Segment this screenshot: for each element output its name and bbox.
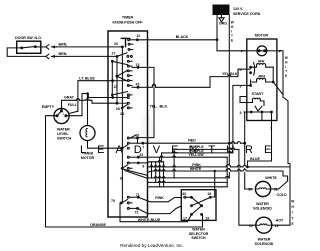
svg-text:13: 13 [136, 63, 140, 67]
service cord white leg [228, 15, 230, 142]
svg-text:BRN.: BRN. [59, 52, 68, 56]
timer contact row 70.8 [117, 70, 132, 76]
wire GRAY water level 1 to timer [62, 100, 77, 109]
motor middle leg to box bottom [261, 112, 263, 121]
svg-text:19: 19 [205, 217, 209, 221]
timer motor coil [86, 129, 87, 137]
svg-text:4PH: 4PH [258, 60, 265, 64]
door switch DOOR SW. N.O. box [17, 41, 41, 53]
wire YEL.-BLK. timer 43 to motor 5 [138, 86, 148, 88]
wire door switch left contact loop to lower disconnect [7, 48, 46, 57]
svg-text:MOTOR: MOTOR [255, 34, 269, 38]
timer contacts under T bar [128, 43, 133, 50]
wire ORANGE [46, 214, 203, 227]
selector bottom contacts 17 19 [190, 213, 203, 216]
wire BRN upper to timer contact 26 [57, 46, 123, 48]
timer contact 8 fan [121, 165, 148, 178]
svg-text:22: 22 [249, 224, 253, 228]
motor protector circle [257, 46, 267, 56]
hot solenoid right lead [272, 224, 290, 226]
svg-text:120 V.: 120 V. [233, 7, 243, 11]
motor centrifugal contacts terminal 5 [247, 63, 255, 76]
svg-text:DOOR SW. N.O.: DOOR SW. N.O. [15, 36, 42, 40]
svg-text:7: 7 [142, 145, 144, 149]
svg-text:YEL. -BLK.: YEL. -BLK. [150, 104, 169, 108]
svg-text:ORANGE: ORANGE [90, 223, 106, 227]
svg-text:27: 27 [112, 52, 116, 56]
svg-text:GRD.: GRD. [219, 22, 228, 26]
svg-text:71: 71 [136, 193, 140, 197]
timer node 15 big junction [116, 75, 119, 78]
wire motor4 leg RED to cold solenoid [244, 112, 246, 165]
cold solenoid right lead WHITE hook [271, 188, 279, 190]
timer push-off T bar [121, 38, 129, 46]
svg-text:9: 9 [142, 164, 144, 168]
timer contact 12 [128, 38, 139, 41]
cold water solenoid [255, 181, 270, 196]
wire BLACK timer 12 to service cord [137, 39, 217, 41]
selector middle contacts [190, 197, 210, 207]
timer inner column 27 down [116, 56, 118, 103]
svg-text:W: W [231, 21, 234, 25]
svg-text:26: 26 [114, 42, 118, 46]
svg-text:8: 8 [120, 176, 122, 180]
svg-text:70: 70 [111, 199, 115, 203]
svg-text:COLD: COLD [277, 193, 288, 197]
svg-text:T: T [231, 34, 233, 38]
svg-text:43: 43 [182, 192, 186, 196]
svg-text:KNOB-PUSH OFF: KNOB-PUSH OFF [113, 20, 144, 24]
node BLACK service junction [216, 38, 219, 41]
svg-text:E: E [231, 39, 233, 43]
label WHITE vertical solenoids [291, 200, 294, 226]
water level switch contacts 1 2 3 [56, 109, 68, 117]
wire WHITE-BLUE timer 70 to selector 17 [120, 203, 192, 222]
descender four [163, 162, 165, 187]
timer node 97.5 gray wire entry [111, 96, 129, 99]
disconnect arrows upper BRN. [46, 45, 57, 50]
motor diagonal to white lead [273, 82, 283, 95]
svg-text:SWITCH: SWITCH [57, 136, 72, 140]
motor centrifugal blade [250, 106, 273, 113]
svg-text:MOTOR: MOTOR [81, 156, 95, 160]
cold solenoid coil [256, 188, 270, 189]
timer contact row 94.9 [111, 92, 132, 97]
svg-text:12: 12 [136, 34, 140, 38]
svg-text:I: I [285, 65, 286, 69]
wire BLUE leg [247, 161, 249, 167]
timer contact row 85.5 [127, 85, 132, 87]
svg-text:17: 17 [183, 217, 187, 221]
watermark LeadVenture text [80, 144, 282, 156]
riser purple2 left end [161, 153, 163, 162]
descender one [151, 162, 153, 178]
descender two [155, 162, 157, 183]
service cord hot leg [217, 15, 247, 51]
timer contact row 66 [127, 65, 132, 67]
svg-text:SERVICE CORD: SERVICE CORD [233, 12, 261, 16]
svg-text:YEL-BLK: YEL-BLK [222, 72, 238, 76]
wire timer motor top leg [87, 94, 89, 126]
svg-text:4PH: 4PH [258, 75, 265, 79]
wire YELLOW leg down [226, 157, 228, 187]
svg-text:WATER: WATER [258, 238, 271, 242]
timer contact row 75.6 [127, 75, 132, 77]
motor protector leads P-P [247, 50, 257, 52]
timer contact 22 [127, 156, 147, 159]
motor terminal 4 lead [244, 111, 251, 113]
service cord plug 120 V. [213, 5, 230, 16]
riser purple1 left end [173, 149, 175, 178]
svg-text:RED: RED [188, 139, 196, 143]
timer contact row 61 [112, 60, 132, 64]
svg-text:21: 21 [275, 224, 279, 228]
svg-text:WHITE: WHITE [265, 176, 277, 180]
selector blade bottom [192, 206, 202, 215]
timer node 26 junction [121, 46, 124, 49]
wire door switch right contact to upper disconnect [35, 46, 46, 48]
svg-text:WATER: WATER [57, 128, 70, 132]
wire LT. BLUE [78, 81, 113, 112]
wire WHITE motor P right side down [277, 51, 283, 95]
svg-text:W: W [285, 56, 288, 60]
motor start winding loop stub [240, 97, 247, 103]
wire timer 72 to selector middle [138, 206, 182, 214]
svg-text:28: 28 [116, 107, 120, 111]
wire WHITE long [148, 171, 155, 172]
svg-text:LEVEL: LEVEL [57, 132, 69, 136]
ground stub GRD. [219, 15, 224, 22]
selector box WATER SELECTOR SWITCH [181, 190, 216, 221]
wire return row 3 [148, 186, 228, 188]
svg-text:10: 10 [135, 133, 139, 137]
wire water level 3 to timer [66, 94, 113, 116]
motor right inner column [272, 67, 274, 82]
motor start winding [247, 98, 264, 105]
wire BRN lower to timer contact 27 [57, 55, 118, 57]
timer box [108, 31, 148, 217]
svg-text:E: E [292, 222, 294, 226]
svg-text:E: E [285, 74, 287, 78]
svg-text:72: 72 [135, 210, 139, 214]
timer contact pair row 27 [117, 53, 132, 58]
timer node at 61 [111, 60, 114, 63]
hot solenoid coil [257, 224, 271, 225]
svg-text:T: T [285, 70, 287, 74]
svg-text:SWITCH: SWITCH [191, 236, 206, 240]
svg-text:GRAY: GRAY [64, 96, 75, 100]
svg-text:2: 2 [270, 127, 272, 131]
timer contact 72 [127, 207, 139, 210]
timer node 27 junction [116, 55, 119, 58]
water level switch circle [54, 108, 69, 123]
descender three from yellow [159, 157, 161, 187]
svg-text:W: W [291, 200, 294, 204]
svg-text:LEADVENTURE: LEADVENTURE [80, 144, 282, 156]
label WHITE vertical service [231, 21, 234, 43]
timer contact row 80.5 [117, 76, 132, 81]
timer contact 70 [120, 200, 132, 205]
motor terminal 2 leg to BLUE [248, 112, 272, 161]
svg-text:BRN.: BRN. [59, 42, 68, 46]
svg-text:START: START [252, 92, 265, 96]
timer contact 28/24 [121, 105, 132, 110]
svg-text:WHITE: WHITE [190, 167, 202, 171]
selector blade top [192, 197, 202, 205]
door switch contacts and blade [20, 45, 36, 49]
motor box [247, 39, 277, 121]
svg-text:WATER: WATER [192, 227, 205, 231]
timer motor circle [80, 126, 95, 141]
svg-text:T: T [292, 216, 294, 220]
wire PINK long [148, 166, 151, 168]
timer contact RED start [127, 142, 144, 145]
wire PURPLE1 leg down to hot solenoid [239, 149, 256, 225]
wire timer motor bottom to contact 7 [88, 141, 123, 149]
svg-text:I: I [231, 30, 232, 34]
timer terminal 43 [132, 86, 139, 89]
svg-text:15: 15 [114, 85, 118, 89]
wire PINK2 timer 71 to selector 43 [138, 197, 180, 202]
return row 1 service white to timer [148, 177, 155, 179]
svg-text:22: 22 [139, 153, 143, 157]
svg-text:18: 18 [207, 192, 211, 196]
svg-text:SOLENOID: SOLENOID [255, 242, 274, 246]
wire timer 13 down right side [138, 67, 154, 84]
svg-text:43: 43 [136, 83, 140, 87]
svg-text:24: 24 [120, 112, 124, 116]
timer contact 9 [127, 162, 147, 165]
svg-text:3: 3 [240, 84, 242, 88]
svg-text:5: 5 [240, 68, 242, 72]
disconnect arrows lower BRN. [46, 54, 57, 59]
svg-text:EMPTY: EMPTY [42, 105, 55, 109]
svg-text:WHITE-BLUE: WHITE-BLUE [138, 218, 161, 222]
svg-text:30: 30 [248, 188, 252, 192]
label WHITE vertical motor [285, 56, 288, 78]
wire return row 2 [148, 181, 159, 183]
timer contact 7 row with timer motor feed [121, 145, 129, 150]
svg-text:HOT: HOT [276, 218, 284, 222]
wire water level 2 down left [46, 116, 58, 227]
selector contact 18 [209, 196, 212, 199]
timer terminal 13 [132, 66, 139, 69]
motor terminal 3 node [247, 80, 252, 87]
wire RED [143, 142, 230, 144]
svg-text:YELLOW: YELLOW [188, 153, 204, 157]
wire PURPLE 2 [162, 152, 173, 154]
watermark leaf [138, 111, 156, 148]
svg-text:31: 31 [274, 188, 278, 192]
node timer motor top [86, 92, 89, 95]
motor main winding lower [252, 78, 273, 82]
wire 18 riser to white [212, 171, 215, 197]
svg-text:TIMER: TIMER [122, 16, 134, 20]
svg-text:FULL: FULL [68, 103, 78, 107]
timer contact 71 [127, 196, 139, 199]
svg-text:BLACK: BLACK [176, 35, 189, 39]
svg-text:BLUE: BLUE [250, 157, 260, 161]
motor main winding upper [251, 64, 273, 68]
timer inner column from 26 down to 70 [121, 47, 123, 203]
svg-text:LT. BLUE: LT. BLUE [79, 76, 95, 80]
timer node 103.2 entry [116, 102, 130, 105]
selector contact 43 [184, 196, 193, 199]
svg-text:SELECTOR: SELECTOR [189, 232, 209, 236]
wire YELLOW [148, 156, 161, 158]
svg-text:TIMER: TIMER [82, 152, 94, 156]
wire row from timer 9 [148, 162, 159, 163]
svg-text:4: 4 [240, 111, 242, 115]
LT. BLUE entry node [111, 79, 114, 82]
svg-text:I: I [292, 211, 293, 215]
svg-text:SOLENOID: SOLENOID [253, 207, 272, 211]
svg-text:Rendered by LeadVenture, Inc.: Rendered by LeadVenture, Inc. [120, 243, 184, 248]
timer contact 10 [127, 135, 139, 143]
wire PURPLE 1 [174, 148, 228, 150]
timer inner column left [111, 61, 113, 97]
svg-text:PINK: PINK [155, 196, 164, 200]
wire PURPLE 2 leg up to motor 3 [233, 85, 247, 152]
svg-text:WATER: WATER [256, 202, 269, 206]
hot water solenoid [256, 217, 272, 233]
